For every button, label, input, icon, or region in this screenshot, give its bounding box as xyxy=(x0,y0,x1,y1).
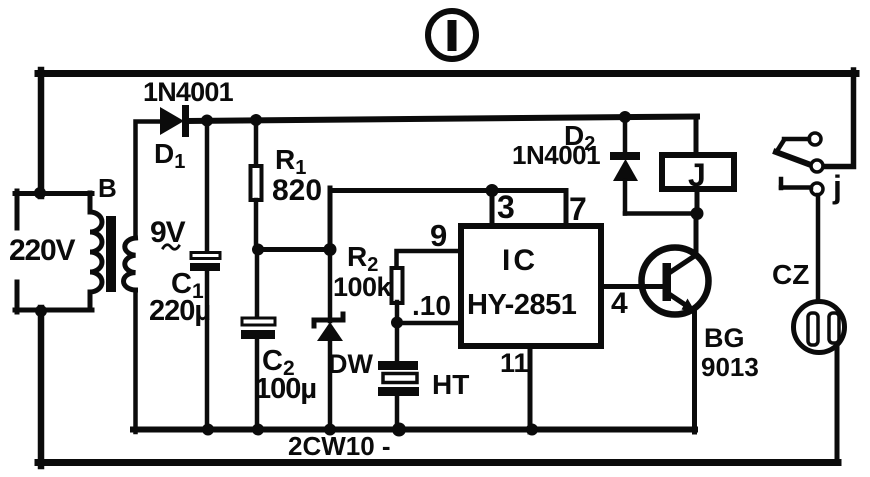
capacitor C1 bottom plate xyxy=(190,263,220,271)
circled I figure marker xyxy=(428,11,476,59)
wire: pins 3/7 supply rail xyxy=(330,191,566,227)
transformer B primary winding xyxy=(90,193,102,310)
piezo HT bottom bar xyxy=(378,387,419,396)
op-amp/IC U1 HY-2851 body xyxy=(461,226,601,346)
wire: bottom contact stub xyxy=(781,185,811,190)
resistor R2 body xyxy=(392,268,403,303)
socket CZ right slot xyxy=(829,313,839,343)
svg-text:j: j xyxy=(832,169,842,205)
diode D2 bottom lead xyxy=(623,181,628,214)
node: pin10/HT junction xyxy=(391,317,403,329)
wire: relay bottom to collector node xyxy=(695,189,700,213)
svg-text:1N4001: 1N4001 xyxy=(512,140,600,170)
svg-text:HY-2851: HY-2851 xyxy=(467,289,577,321)
wire: R1 bottom lead xyxy=(254,200,259,249)
wire: secondary bottom lead to common rail xyxy=(133,290,138,432)
node: DW on common rail xyxy=(324,424,336,436)
node: pin11 on common rail xyxy=(526,424,538,436)
transistor emitter branch xyxy=(669,294,695,432)
svg-text:3: 3 xyxy=(497,189,515,225)
socket CZ left slot xyxy=(808,313,818,345)
node: collector/relay junction xyxy=(691,207,704,220)
wire: top contact hook xyxy=(777,140,784,151)
wire: top contact stub xyxy=(784,137,809,142)
wire: pin 11 to common rail xyxy=(528,346,533,432)
wire: AC source left stub upper xyxy=(15,191,20,228)
diode D2 triangle xyxy=(613,159,638,181)
node: R1 junction on DC rail xyxy=(250,114,262,126)
wire: DW node up to pins 3/7 rail xyxy=(328,188,333,249)
piezo HT middle element xyxy=(383,374,417,383)
wire: DW bottom lead xyxy=(328,340,333,432)
node: C1 on common rail xyxy=(202,424,214,436)
svg-text:B: B xyxy=(98,173,117,203)
svg-text:DW: DW xyxy=(328,349,373,379)
svg-text:100k: 100k xyxy=(333,272,393,302)
wire: D2 to collector node xyxy=(625,211,697,216)
transistor collector branch xyxy=(669,213,696,273)
transistor emitter arrow xyxy=(682,299,697,314)
svg-text:820: 820 xyxy=(272,174,322,207)
switch j lever xyxy=(776,152,811,165)
transformer B secondary winding xyxy=(124,238,136,290)
wire: left bus vertical lower xyxy=(38,308,45,466)
switch j bottom contact circle xyxy=(811,183,823,195)
diode D2 top lead xyxy=(623,117,628,153)
wire: left bus vertical upper xyxy=(38,70,45,196)
wire: HT top lead xyxy=(395,322,400,362)
wire: AC source loop top xyxy=(15,191,92,196)
wire: AC source left stub lower xyxy=(15,282,20,312)
diode D1 cathode bar xyxy=(182,105,189,137)
svg-text:220V: 220V xyxy=(9,234,75,267)
label: AC tilde under 9V xyxy=(163,245,179,250)
diode D1 triangle xyxy=(160,107,184,135)
relay J coil xyxy=(662,155,734,189)
svg-text:IC: IC xyxy=(502,244,538,277)
socket CZ circle xyxy=(794,302,845,353)
node: pin 3 junction xyxy=(486,184,499,197)
wire: bottom rail xyxy=(38,459,838,466)
capacitor C2 bottom plate xyxy=(241,330,275,339)
svg-text:100µ: 100µ xyxy=(255,373,316,405)
svg-text:9013: 9013 xyxy=(701,352,759,382)
wire: C1 top lead xyxy=(205,121,210,252)
svg-text:BG: BG xyxy=(704,323,745,353)
zener DW triangle xyxy=(317,322,343,341)
wire: bottom contact hook up xyxy=(779,179,784,188)
svg-text:.10: .10 xyxy=(412,290,451,321)
node: R1/C2 junction xyxy=(252,244,264,256)
node: AC source bottom junction xyxy=(35,305,47,317)
svg-text:220µ: 220µ xyxy=(149,295,210,327)
capacitor C1 top plate xyxy=(191,253,220,259)
node: HT on common rail xyxy=(392,423,406,437)
zener DW cathode bar with bends xyxy=(314,314,343,326)
wire: C2 bottom lead xyxy=(255,339,260,432)
wire: C1 bottom lead to common rail xyxy=(205,271,210,432)
wire: R2 bottom lead xyxy=(395,302,400,322)
svg-text:7: 7 xyxy=(569,191,587,227)
wire: AC source loop bottom xyxy=(15,308,92,313)
svg-text:CZ: CZ xyxy=(772,259,809,290)
svg-text:11: 11 xyxy=(500,348,529,378)
svg-text:1N4001: 1N4001 xyxy=(143,77,234,107)
transistor BG 9013 circle xyxy=(642,248,709,315)
wire: CZ socket to bottom rail xyxy=(835,340,840,463)
wire: DC positive rail xyxy=(188,117,697,122)
ground/common inner rail xyxy=(133,427,695,433)
node: C2 on common rail xyxy=(252,424,264,436)
node: DW top junction xyxy=(324,243,337,256)
svg-text:9: 9 xyxy=(430,218,447,253)
wire: HT bottom lead xyxy=(395,396,400,432)
wire: top rail xyxy=(38,70,856,77)
transistor base bar xyxy=(663,263,672,301)
node: D2 junction on DC rail xyxy=(619,111,631,123)
wire: C2 top lead xyxy=(255,249,260,318)
transformer B core xyxy=(106,216,116,292)
diode D2 cathode bar xyxy=(610,152,640,160)
wire: R1 top lead xyxy=(254,120,259,166)
svg-text:4: 4 xyxy=(611,287,628,320)
wire: DC rail drop to relay coil xyxy=(694,117,699,153)
wire: pin 3 stub xyxy=(490,190,495,226)
node: AC source top junction xyxy=(34,187,46,199)
wire: switch to CZ socket xyxy=(816,195,821,314)
svg-text:HT: HT xyxy=(432,369,469,400)
wire: DW top lead xyxy=(328,249,333,321)
resistor R1 body xyxy=(251,166,262,200)
wire: secondary top lead to D1 xyxy=(136,122,161,239)
piezo HT top bar xyxy=(378,361,418,370)
capacitor C2 top plate xyxy=(242,318,275,325)
wire: right drop from top rail to switch common xyxy=(822,70,854,167)
node: C1 junction on DC rail xyxy=(201,115,213,127)
svg-text:2CW10 -: 2CW10 - xyxy=(288,431,391,461)
wire: pin 9 to R2 xyxy=(397,251,459,268)
wire: pin 4 to transistor base xyxy=(601,284,663,289)
switch j middle contact circle xyxy=(811,160,823,172)
switch j top contact circle xyxy=(809,133,821,145)
wire: pin 10 stub xyxy=(397,321,458,326)
wire: link R1 node to DW node xyxy=(256,247,330,252)
